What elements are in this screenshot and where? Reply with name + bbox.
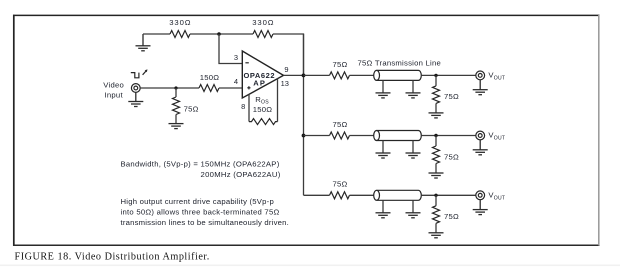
- wire: ground to R1: [143, 33, 170, 35]
- svg-text:VOUT: VOUT: [488, 71, 505, 82]
- ground (coax shield right) row 1: [406, 93, 421, 98]
- wire: bus to series resistor row 3: [304, 194, 330, 196]
- svg-text:75Ω: 75Ω: [332, 120, 347, 129]
- ground (top-left, feedback return): [136, 34, 151, 51]
- node: input termination junction dot: [174, 86, 177, 89]
- wire: tap down to pin 3: [219, 34, 242, 64]
- wire: pin 8 leg down: [248, 94, 250, 121]
- transmission line coax symbol row 2: [374, 131, 422, 141]
- svg-text:Video: Video: [103, 81, 124, 90]
- wire: coax shield stub left row 3: [382, 200, 384, 212]
- ground (below input termination): [169, 124, 184, 129]
- node: bus junction dot row 2: [302, 134, 306, 138]
- wire: coax shield stub left row 1: [382, 80, 384, 92]
- wire: coax to output connector row 2: [421, 135, 476, 137]
- wire: load resistor lead row 3: [435, 195, 437, 206]
- op-amp inverting input mark: [245, 62, 248, 64]
- svg-text:75Ω: 75Ω: [444, 152, 459, 161]
- wire: coax to output connector row 1: [421, 74, 476, 76]
- wire: series resistor to coax row 2: [350, 135, 375, 137]
- svg-text:8: 8: [241, 102, 245, 111]
- resistor R1 zigzag: [170, 31, 190, 38]
- svg-text:High output current drive capa: High output current drive capability (5V…: [121, 197, 275, 206]
- connector VOUT row 2 (BNC): [476, 131, 485, 140]
- svg-text:75Ω: 75Ω: [184, 105, 199, 114]
- wire: coax shield stub right row 2: [412, 141, 414, 153]
- wire: distribution bus vertical: [303, 34, 305, 195]
- svg-text:75Ω: 75Ω: [332, 60, 347, 69]
- ground (below VOUT connector) row 2: [473, 140, 488, 155]
- wire: bus to series resistor row 2: [304, 135, 330, 137]
- wire: R1 to R2 with inverting-input tap: [190, 33, 253, 35]
- wire: pin 13 leg down: [277, 78, 279, 121]
- ground (below input connector): [128, 92, 143, 106]
- resistor 75 ohm series back-termination row 3: [330, 192, 350, 199]
- svg-text:ROS: ROS: [255, 95, 269, 106]
- ground (below load resistor) row 2: [429, 173, 444, 178]
- op-amp U1 OPA622 triangle: [242, 51, 283, 98]
- node: bus junction dot row 1: [302, 74, 306, 78]
- connector VOUT row 1 (BNC): [476, 71, 485, 80]
- svg-text:330Ω: 330Ω: [252, 18, 274, 27]
- resistor 75 ohm load row 1: [433, 86, 440, 104]
- wire: op-amp output to bus: [284, 74, 304, 76]
- wire: load resistor lead row 2: [435, 136, 437, 147]
- wire: coax shield stub right row 1: [412, 80, 414, 92]
- svg-text:VOUT: VOUT: [488, 131, 505, 142]
- svg-text:200MHz (OPA622AU): 200MHz (OPA622AU): [201, 170, 281, 179]
- ground (below load resistor) row 3: [429, 233, 444, 238]
- svg-text:AP: AP: [253, 79, 265, 88]
- ground (coax shield right) row 2: [406, 153, 421, 158]
- svg-text:VOUT: VOUT: [488, 191, 505, 202]
- svg-text:into 50Ω) allows three back-te: into 50Ω) allows three back-terminated 7…: [121, 208, 280, 217]
- svg-text:Bandwidth, (5Vp-p) = 150MHz (O: Bandwidth, (5Vp-p) = 150MHz (OPA622AP): [121, 160, 280, 169]
- wire: input connector to shunt node: [140, 87, 199, 89]
- node: load junction dot row 2: [434, 134, 437, 137]
- ground (below load resistor) row 1: [429, 113, 444, 118]
- svg-text:75Ω Transmission Line: 75Ω Transmission Line: [358, 58, 442, 67]
- svg-text:FIGURE 18. Video Distribution: FIGURE 18. Video Distribution Amplifier.: [15, 252, 210, 263]
- svg-text:330Ω: 330Ω: [169, 18, 191, 27]
- wire: series resistor to coax row 3: [350, 194, 375, 196]
- wire: coax shield stub left row 2: [382, 141, 384, 153]
- transmission line coax symbol row 3: [374, 190, 422, 200]
- svg-text:150Ω: 150Ω: [253, 105, 273, 114]
- svg-text:13: 13: [281, 79, 289, 88]
- ground (coax shield right) row 3: [406, 213, 421, 218]
- svg-text:9: 9: [284, 65, 288, 74]
- wire: 150 ohm to pin 4: [219, 87, 242, 89]
- svg-text:4: 4: [234, 77, 238, 86]
- page separator line: [0, 264, 620, 266]
- ground (below VOUT connector) row 1: [473, 80, 488, 95]
- pulse waveform symbol: [131, 69, 148, 77]
- svg-text:3: 3: [234, 53, 238, 62]
- wire: coax to output connector row 3: [421, 194, 476, 196]
- wire: coax shield stub right row 3: [412, 200, 414, 212]
- resistor 75 ohm series back-termination row 1: [330, 72, 350, 79]
- resistor R2 zigzag: [253, 31, 273, 38]
- ground (coax shield left) row 2: [376, 153, 391, 158]
- svg-text:75Ω: 75Ω: [444, 92, 459, 101]
- resistor 75 ohm series back-termination row 2: [330, 132, 350, 139]
- connector J1 video input (BNC): [131, 84, 140, 93]
- op-amp non-inverting input mark: [247, 86, 250, 89]
- ground (coax shield left) row 3: [376, 213, 391, 218]
- svg-text:150Ω: 150Ω: [200, 73, 220, 82]
- resistor ROS zigzag: [249, 119, 278, 125]
- resistor 75 ohm input termination: [173, 97, 180, 115]
- svg-text:75Ω: 75Ω: [444, 212, 459, 221]
- transmission line coax symbol row 1: [374, 70, 422, 80]
- wire: series resistor to coax row 1: [350, 74, 375, 76]
- node: load junction dot row 1: [434, 74, 437, 77]
- wire: load resistor lead row 1: [435, 75, 437, 86]
- svg-text:transmission lines to be simul: transmission lines to be simultaneously …: [121, 218, 290, 227]
- resistor 150 ohm series input: [199, 85, 219, 92]
- node: feedback tap junction dot: [217, 32, 221, 36]
- resistor 75 ohm load row 2: [433, 146, 440, 164]
- node: load junction dot row 3: [434, 194, 437, 197]
- wire: R2 to output bus corner: [273, 34, 304, 75]
- svg-text:75Ω: 75Ω: [332, 180, 347, 189]
- wire: bus to series resistor row 1: [304, 74, 330, 76]
- resistor 75 ohm load row 3: [433, 206, 440, 224]
- svg-text:Input: Input: [105, 90, 124, 99]
- ground (below VOUT connector) row 3: [473, 200, 488, 215]
- ground (coax shield left) row 1: [376, 93, 391, 98]
- connector VOUT row 3 (BNC): [476, 191, 485, 200]
